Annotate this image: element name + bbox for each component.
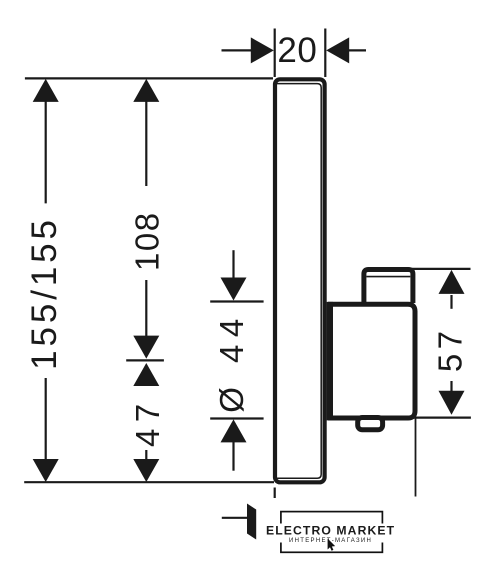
- svg-text:ELECTRO MARKET: ELECTRO MARKET: [266, 524, 395, 538]
- svg-text:57: 57: [432, 326, 469, 372]
- svg-text:Ø 44: Ø 44: [213, 311, 250, 413]
- svg-text:108: 108: [128, 211, 165, 271]
- svg-text:47: 47: [129, 397, 166, 447]
- svg-text:20: 20: [277, 31, 317, 70]
- svg-text:155/155: 155/155: [25, 216, 64, 370]
